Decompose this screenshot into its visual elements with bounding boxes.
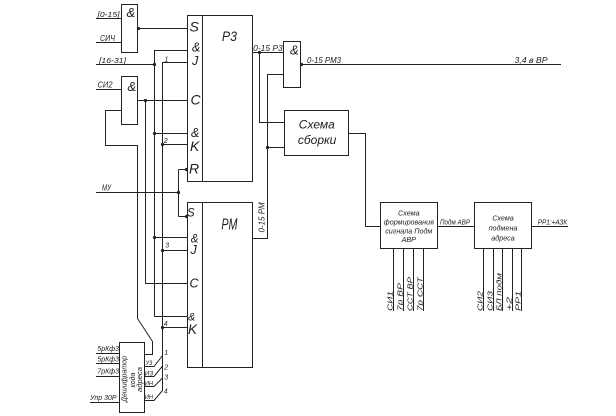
svg-text:Дешифратор: Дешифратор	[121, 356, 128, 403]
svg-text:7рКф3: 7рКф3	[97, 369, 119, 376]
svg-text:1: 1	[164, 350, 168, 357]
svg-text:ССТ ВР: ССТ ВР	[408, 277, 415, 311]
svg-text:Упр 30Р: Упр 30Р	[89, 395, 117, 402]
svg-text:J: J	[190, 243, 198, 257]
svg-text:МУ: МУ	[102, 184, 112, 193]
svg-text:СИ2: СИ2	[478, 291, 485, 311]
svg-text:J: J	[191, 54, 199, 68]
svg-text:2: 2	[163, 138, 168, 145]
svg-text:адреса: адреса	[136, 367, 144, 392]
svg-text:Схема: Схема	[492, 214, 514, 223]
svg-text:S: S	[187, 207, 195, 219]
svg-text:S: S	[190, 19, 200, 35]
svg-text:1: 1	[165, 56, 169, 63]
svg-text:C: C	[190, 276, 200, 290]
svg-text:СИ2: СИ2	[98, 81, 114, 90]
svg-text:3: 3	[165, 243, 169, 250]
svg-text:сборки: сборки	[298, 133, 337, 147]
svg-text:РМ: РМ	[221, 217, 237, 234]
svg-text:И3: И3	[145, 370, 154, 377]
svg-text:БЛ подм: БЛ подм	[496, 273, 504, 311]
svg-text:&: &	[290, 42, 299, 57]
svg-text:Подм АВР: Подм АВР	[440, 218, 470, 227]
svg-text:5рКф3: 5рКф3	[97, 357, 119, 364]
svg-text:3,4 в ВР: 3,4 в ВР	[515, 56, 549, 65]
svg-text:5рКф3: 5рКф3	[97, 346, 119, 353]
svg-text:C: C	[191, 92, 202, 108]
svg-text:2: 2	[163, 365, 168, 372]
svg-text:У3: У3	[145, 360, 153, 367]
svg-text:подмена: подмена	[489, 224, 518, 233]
svg-text:K: K	[188, 322, 198, 337]
svg-text:Р3: Р3	[222, 28, 237, 44]
svg-text:+2: +2	[507, 297, 514, 311]
svg-text:&: &	[192, 40, 200, 54]
svg-text:СИ3: СИ3	[488, 291, 495, 311]
svg-text:СИЧ: СИЧ	[100, 34, 116, 43]
svg-text:7р ССТ: 7р ССТ	[418, 276, 425, 311]
svg-text:3: 3	[164, 375, 168, 382]
svg-text:адреса: адреса	[491, 233, 514, 242]
svg-text:&: &	[128, 79, 137, 94]
svg-text:K: K	[190, 138, 200, 154]
svg-text:[16-31]: [16-31]	[98, 56, 127, 65]
svg-text:Схема: Схема	[398, 209, 420, 218]
svg-text:&: &	[127, 5, 136, 20]
svg-text:ИН: ИН	[145, 394, 154, 401]
svg-text:СИ1: СИ1	[388, 291, 395, 311]
svg-text:РР1: РР1	[516, 291, 523, 311]
svg-text:кода: кода	[129, 372, 137, 387]
svg-text:7р ВР: 7р ВР	[398, 283, 405, 311]
svg-text:РР1:+АЗК: РР1:+АЗК	[538, 218, 568, 227]
svg-text:Схема: Схема	[299, 118, 335, 132]
svg-text:формирования: формирования	[384, 218, 434, 227]
svg-text:0-15 РМ: 0-15 РМ	[258, 202, 267, 232]
svg-text:ИН: ИН	[145, 381, 154, 388]
svg-text:4: 4	[164, 389, 168, 396]
svg-text:[0-15]: [0-15]	[96, 10, 120, 19]
svg-text:0-15 Р3: 0-15 Р3	[253, 44, 283, 53]
svg-text:0-15 РМ3: 0-15 РМ3	[307, 56, 342, 65]
svg-text:4: 4	[164, 321, 168, 328]
svg-text:R: R	[189, 160, 199, 176]
svg-text:АВР: АВР	[401, 235, 417, 244]
